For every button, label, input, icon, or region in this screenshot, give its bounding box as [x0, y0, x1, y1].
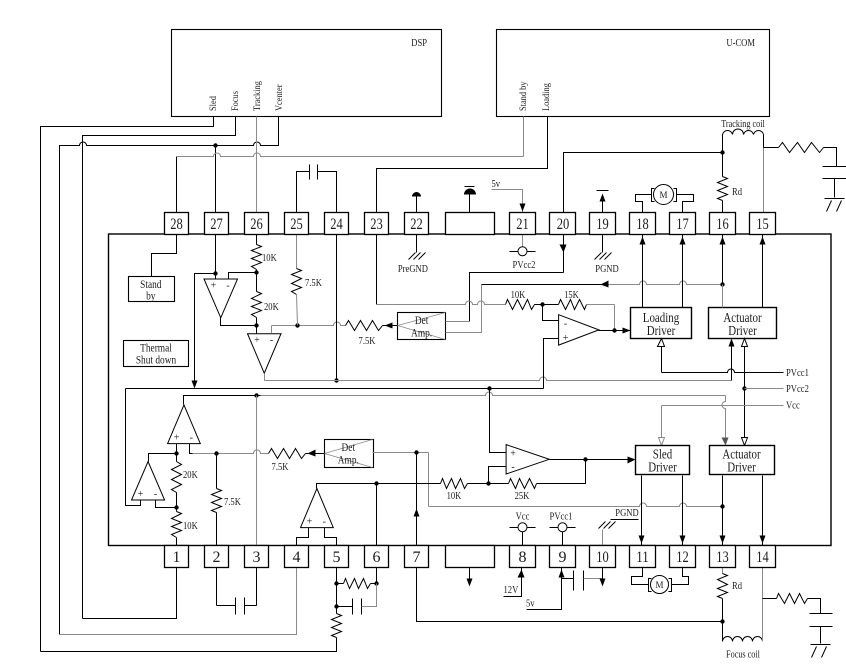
wire 10K to junction	[468, 483, 489, 485]
svg-text:7.5K: 7.5K	[272, 461, 289, 473]
svg-text:Vcc: Vcc	[516, 511, 530, 523]
svg-text:Shut down: Shut down	[136, 353, 176, 367]
svg-text:7.5K: 7.5K	[359, 335, 376, 347]
arrow into bus from U1 node	[192, 381, 198, 389]
block Actuator Driver lower	[710, 446, 775, 475]
wire U4 plus stub left down to bus	[544, 339, 559, 389]
node U5 plus	[174, 451, 178, 455]
svg-text:20: 20	[557, 216, 570, 233]
op-amp U1	[204, 279, 238, 318]
svg-text:Focus: Focus	[230, 91, 240, 111]
wire U5 minus stub down	[190, 444, 193, 454]
arrow solid into Actuator Driver bottom	[729, 339, 735, 347]
wire Vcenter: DSP down, left rail with hops at Tracking and Focus rails	[60, 117, 279, 635]
svg-text:3: 3	[253, 549, 261, 566]
wire motor left lead to pin18	[636, 195, 652, 213]
wire pin16 into IC to Actuator Driver	[722, 235, 724, 285]
wire arrow to Det Amp U8	[306, 453, 325, 455]
supply PVcc1 pin9	[550, 527, 559, 529]
wire actuator lower feed down (hop over Vcc)	[722, 396, 726, 438]
svg-text:Driver: Driver	[727, 461, 756, 476]
svg-text:7.5K: 7.5K	[224, 496, 241, 508]
svg-text:1: 1	[173, 549, 181, 566]
wire op3 output line y395.5 (hop at 489)	[184, 396, 261, 405]
node U4 output	[612, 328, 616, 332]
svg-text:5v: 5v	[492, 178, 501, 190]
svg-text:7: 7	[413, 549, 421, 566]
pin 28	[165, 213, 189, 235]
pin 21	[510, 213, 536, 235]
svg-text:24: 24	[330, 216, 343, 233]
wire U7 output to Sled Driver	[550, 459, 634, 461]
node 20K/10K junction	[174, 505, 178, 509]
resistor 7.5K vert pin2	[216, 454, 218, 489]
bottom wide box	[446, 546, 495, 568]
pin 5	[325, 546, 349, 568]
capacitor pins2-3	[217, 605, 236, 607]
svg-text:-: -	[190, 433, 193, 444]
pin 10	[590, 546, 616, 568]
block Stand by	[129, 277, 175, 302]
resistor 10K mid	[441, 479, 468, 489]
svg-text:PVcc1: PVcc1	[786, 367, 809, 379]
pin 19	[590, 213, 616, 235]
arrow open into Sled Driver top	[659, 438, 665, 446]
DSP block	[172, 30, 442, 117]
svg-text:+: +	[211, 281, 217, 292]
wire sense line from pin16 node to Det Amp U3 (hops 18,17)	[482, 284, 603, 286]
svg-text:+: +	[563, 333, 569, 344]
svg-text:Driver: Driver	[647, 324, 676, 339]
wire Sled out pin11	[641, 476, 643, 546]
svg-text:20K: 20K	[183, 469, 198, 481]
wire pin23 down right (hops at 469,481)	[376, 235, 378, 305]
inductor tracking coil	[723, 129, 764, 135]
block Loading Driver	[631, 308, 692, 339]
svg-text:Tracking: Tracking	[252, 81, 262, 111]
svg-text:PreGND: PreGND	[398, 263, 428, 275]
arrow into 7.5K from Det Amp U3	[385, 323, 393, 329]
resistor Rd top	[722, 153, 724, 177]
wire 25K feedback to output	[537, 460, 586, 484]
inductor focus coil	[723, 637, 763, 642]
op-amp U2	[248, 334, 282, 374]
svg-text:12: 12	[676, 549, 689, 566]
wire pin28 to Stand by box	[152, 235, 177, 277]
svg-text:Rd: Rd	[732, 580, 742, 592]
node PVcc2	[742, 386, 746, 390]
capacitor top right	[823, 166, 846, 168]
wire pin14 to coil right	[762, 599, 764, 642]
node U1 plus input	[213, 271, 217, 275]
resistor 15K loading	[559, 300, 587, 310]
svg-text:+: +	[307, 517, 313, 528]
wire motor right lead to pin12	[672, 568, 689, 585]
wire 10K to 20K	[256, 270, 258, 292]
op-amp U9	[301, 489, 334, 528]
svg-text:10K: 10K	[511, 289, 526, 301]
svg-text:by: by	[146, 289, 155, 303]
wire Det Amp U3 upper input from pin20	[446, 321, 470, 323]
wire pin24 down to U2 output line	[336, 235, 338, 381]
wire 20K bottom to node	[256, 318, 258, 326]
svg-text:25K: 25K	[515, 490, 530, 502]
svg-text:DSP: DSP	[411, 37, 427, 49]
wire pin20 up right to tracking coil node	[564, 153, 723, 213]
svg-text:13: 13	[716, 549, 729, 566]
pin 6	[365, 546, 389, 568]
svg-text:19: 19	[596, 216, 609, 233]
wire 7.5K to Det Amp U3 with arrow	[383, 325, 398, 327]
svg-text:PVcc2: PVcc2	[786, 383, 809, 395]
wire pin3 gray vertical (hop drawn on det line)	[256, 396, 258, 546]
wire motor right lead to pin17	[677, 195, 694, 213]
svg-text:9: 9	[559, 549, 567, 566]
resistor 10K lower	[172, 512, 182, 538]
svg-text:-: -	[511, 462, 514, 473]
svg-text:10K: 10K	[262, 252, 277, 264]
block Det Amp U3	[398, 313, 446, 340]
wire U4 output to Loading Driver	[599, 330, 631, 332]
svg-text:12V: 12V	[504, 584, 519, 596]
node pin3 tap on op3 output	[254, 393, 258, 397]
wire pin17 to Loading Driver	[682, 235, 684, 308]
rail PVcc2 label wire	[745, 388, 784, 390]
pin 22	[405, 213, 429, 235]
svg-text:10K: 10K	[183, 520, 198, 532]
wire Det Amp U3 lower input right up	[446, 285, 482, 333]
supply Vcc pin8	[510, 527, 519, 529]
wire pin4 to Vcenter rail	[60, 568, 297, 635]
node pin24 on U2 output line	[334, 378, 338, 382]
node tracking coil / pin20 / Rd	[720, 150, 724, 154]
block Det Amp U8	[325, 440, 374, 468]
wire Tracking: DSP down to pin26	[256, 117, 258, 213]
wire coil left down to node	[722, 135, 724, 153]
ground PGND hatch pin10	[599, 522, 606, 529]
arrow below bottom wide box	[469, 568, 471, 579]
svg-text:U-COM: U-COM	[726, 37, 755, 49]
wire pin14 down	[762, 568, 764, 599]
capacitor C-bridge pins25-24	[297, 172, 310, 213]
wire U7 plus from bus	[490, 389, 507, 453]
svg-text:17: 17	[676, 216, 689, 233]
wire U6 output up to U5 plus node	[149, 454, 177, 462]
node U1 output / U2 plus	[254, 323, 258, 327]
wire Sled: DSP down, left, down left rail	[41, 117, 214, 652]
resistor 7.5K pin25	[292, 269, 302, 295]
arrow open into Actuator lower top	[742, 438, 748, 446]
capacitor pins5-6	[337, 606, 353, 608]
node pin6 res	[374, 581, 378, 585]
pin 23	[365, 213, 389, 235]
node pin5 res	[334, 581, 338, 585]
pin 14	[750, 546, 776, 568]
svg-text:20K: 20K	[264, 301, 279, 313]
ground PreGND hatch	[409, 253, 416, 260]
pin 13	[710, 546, 736, 568]
svg-text:18: 18	[636, 216, 649, 233]
ground earth top right	[825, 198, 845, 200]
supply PVcc2 pin21	[522, 235, 524, 248]
wire 5v to pin9	[527, 568, 562, 610]
svg-text:+: +	[138, 489, 144, 500]
wire to 10K mid	[377, 483, 441, 485]
U-COM block	[497, 30, 770, 117]
resistor 20K pin26	[252, 292, 262, 318]
wire Focus: DSP down, left, down left rail	[83, 117, 236, 619]
motor M loading	[654, 185, 674, 205]
svg-text:-: -	[564, 319, 567, 330]
wire Loading: U-COM down, left, down to pin23	[377, 117, 548, 213]
wire Rd down to node	[722, 599, 724, 621]
svg-text:26: 26	[250, 216, 263, 233]
motor M spindle	[651, 576, 669, 594]
resistor damping top right	[779, 143, 824, 153]
wire 10K to 15K	[535, 304, 559, 306]
svg-text:11: 11	[636, 549, 649, 566]
wire res leads pins5-6	[337, 583, 344, 585]
wire node down to op-amp U2 +	[256, 326, 258, 334]
wire pin5 down	[336, 568, 338, 584]
svg-text:Amp.: Amp.	[338, 453, 359, 467]
resistor pin5 vertical	[332, 614, 342, 638]
pin 4	[285, 546, 309, 568]
svg-text:10K: 10K	[447, 490, 462, 502]
node U7 output	[583, 457, 587, 461]
wire U6 minus to 20K/10K node	[156, 501, 177, 508]
wire Det Amp U8 right side	[373, 452, 429, 454]
wire junction to 25K	[489, 483, 509, 485]
IC main body	[109, 234, 832, 546]
node pin7/pin13 junction	[720, 619, 724, 623]
svg-text:M: M	[659, 190, 667, 200]
node pin5 cap	[334, 604, 338, 608]
svg-text:Amp.: Amp.	[411, 326, 432, 340]
svg-text:Rd: Rd	[732, 186, 742, 198]
wire Actuator out pin14	[762, 476, 764, 546]
node 10K/25K U7 minus	[486, 481, 490, 485]
svg-text:15: 15	[756, 216, 769, 233]
wire pin5 chain down	[336, 584, 338, 614]
antenna symbol above pin19	[602, 197, 604, 213]
wire det line to U5 minus: gray with dot and hop	[193, 450, 269, 453]
wire resistor to cap top right	[824, 148, 837, 167]
wire pin27 down to op-amp U1 +	[215, 235, 217, 280]
resistor 7.5K horizontal lower	[269, 449, 306, 459]
pin 12	[670, 546, 696, 568]
rail PVcc1	[661, 339, 663, 373]
wire pin20 down arrow left down to Det Amp U3	[563, 235, 565, 273]
wire pin25 down	[296, 235, 298, 269]
top wide box	[446, 213, 495, 235]
capacitor bottom right	[810, 613, 833, 615]
svg-text:8: 8	[519, 549, 527, 566]
wire pin18 to Loading Driver	[642, 235, 644, 308]
svg-text:5: 5	[333, 549, 341, 566]
wire U9 output up right	[317, 484, 377, 489]
node pin7 tap	[414, 450, 418, 454]
pin 1	[165, 546, 189, 568]
wire motor left lead to pin11	[632, 568, 649, 585]
test point above top wide box	[469, 195, 471, 213]
op-amp U4 loading	[559, 315, 599, 345]
arrow into Loading Driver	[623, 328, 631, 334]
block Actuator Driver upper	[709, 308, 777, 339]
svg-text:Focus coil: Focus coil	[726, 650, 760, 661]
pin 26	[245, 213, 269, 235]
wire pin22 to PreGND	[416, 235, 418, 253]
node sense on pin16 line	[720, 282, 724, 286]
svg-text:16: 16	[716, 216, 729, 233]
block Thermal Shut down	[124, 341, 189, 367]
wire resistor to cap bottom right	[808, 599, 821, 614]
svg-text:-: -	[270, 335, 273, 346]
svg-text:21: 21	[516, 216, 529, 233]
wire coil right down to pin15	[763, 135, 765, 148]
node sense on pin13 line	[720, 504, 724, 508]
wire pin15 to Actuator Driver	[762, 235, 764, 308]
resistor 10K pin26	[252, 245, 262, 270]
arrow open into Loading Driver bottom	[658, 339, 665, 347]
wire pin14 node to damping resistor	[763, 598, 777, 600]
wire U2 minus up to gray line	[271, 326, 273, 334]
svg-text:Sled: Sled	[208, 96, 218, 111]
pin 9	[550, 546, 576, 568]
wire pin1 U-route to Focus rail	[83, 568, 177, 619]
ground PGND hatch pin19	[595, 253, 602, 260]
svg-text:Driver: Driver	[648, 461, 677, 476]
pin 24	[325, 213, 349, 235]
pin 25	[285, 213, 309, 235]
resistor damping bottom right	[777, 594, 808, 604]
wire divider node down to U4 minus	[543, 305, 559, 321]
svg-text:7.5K: 7.5K	[305, 277, 322, 289]
wire pin6 down	[376, 568, 378, 584]
wire pin2 down	[216, 568, 218, 606]
arrow into Actuator lower top	[722, 438, 729, 446]
wire U9 plus jog to pin4	[297, 528, 309, 546]
svg-text:22: 22	[410, 216, 423, 233]
resistor 10K loading	[506, 300, 535, 310]
wire 12V to pin8	[504, 568, 522, 597]
capacitor pins9-10	[562, 578, 574, 580]
wire U1 output to node	[221, 318, 257, 326]
wire pin13 down to Rd	[722, 568, 724, 574]
svg-text:15K: 15K	[564, 289, 579, 301]
svg-text:Vcc: Vcc	[786, 400, 800, 412]
pin 17	[670, 213, 696, 235]
wire U2 minus line right to 7.5K (hop at pin24)	[272, 322, 346, 325]
svg-text:+: +	[254, 335, 260, 346]
svg-text:10: 10	[596, 549, 609, 566]
wire pin7 down right to pin13 node	[417, 568, 723, 622]
wire node down to focus coil	[722, 622, 724, 642]
svg-text:PGND: PGND	[595, 263, 618, 275]
svg-text:PVcc1: PVcc1	[550, 511, 573, 523]
wire pin10 stub with down arrow	[602, 568, 604, 581]
wire U9 minus jog to pin5	[325, 528, 337, 546]
node bus to U7 plus	[487, 386, 491, 390]
op-amp U6	[132, 462, 165, 501]
pin 3	[245, 546, 269, 568]
svg-text:Vcenter: Vcenter	[274, 85, 284, 112]
op-amp U7	[506, 445, 549, 474]
wire cap to ground top right	[834, 179, 836, 198]
wire U5 plus stub	[176, 444, 178, 454]
arrow into Sled Driver	[628, 457, 636, 464]
op-amp U5	[168, 405, 201, 444]
node Vcenter to pin27 junction	[213, 143, 217, 147]
svg-text:2: 2	[213, 549, 221, 566]
svg-text:4: 4	[293, 549, 301, 566]
pin 18	[630, 213, 656, 235]
node loading divider	[540, 302, 544, 306]
node pin6 tap	[374, 481, 378, 485]
pin 16	[710, 213, 736, 235]
svg-text:-: -	[154, 489, 157, 500]
wire pin27 up to Vcenter line	[215, 146, 217, 213]
arrow 5v down into pin21	[520, 204, 526, 212]
svg-text:PGND: PGND	[615, 507, 638, 519]
wire pin19 to PGND	[602, 235, 604, 253]
wire pin7 vertical with up arrow	[416, 453, 418, 546]
wire U1 plus node left and down to bus with arrow	[195, 274, 216, 386]
pin 8	[510, 546, 536, 568]
wire Stand-by: pin28 up, right to U-COM (hops over 27,26)	[176, 157, 178, 213]
block Sled Driver	[636, 446, 690, 475]
wire cap to ground bottom right	[820, 627, 822, 644]
svg-text:-: -	[226, 281, 229, 292]
rail PVcc2 vertical	[744, 339, 746, 438]
wire Sled out pin12	[682, 476, 684, 546]
wire U1 minus up right to R node	[229, 273, 257, 280]
wire 7.5K pin25 to node	[297, 295, 298, 326]
ground earth bottom right	[811, 644, 831, 646]
svg-text:14: 14	[756, 549, 769, 566]
pin 2	[205, 546, 229, 568]
svg-text:M: M	[655, 580, 663, 590]
node 7.5K tap pin2	[214, 451, 218, 455]
svg-text:Loading: Loading	[541, 83, 551, 111]
arrow into 7.5K lower from Det Amp	[308, 450, 316, 457]
svg-text:Tracking coil: Tracking coil	[721, 119, 765, 130]
pin 7	[405, 546, 429, 568]
svg-text:-: -	[323, 517, 326, 528]
svg-text:28: 28	[170, 216, 183, 233]
resistor 7.5K horizontal upper	[346, 321, 383, 331]
wire to damping resistor top right	[764, 147, 779, 149]
op-amp U2 output down to gray line	[264, 374, 266, 381]
wire 15K right to feedback corner	[587, 304, 615, 306]
wire U7 minus stub	[489, 467, 507, 484]
pin 11	[630, 546, 656, 568]
wire 5v to pin21	[492, 190, 523, 213]
wire feedback down to output node	[614, 305, 616, 331]
svg-text:+: +	[510, 449, 516, 460]
bus error line y388	[126, 389, 141, 506]
svg-text:Driver: Driver	[728, 324, 757, 339]
node U1 minus junction	[254, 270, 258, 274]
test point above pin22	[416, 197, 418, 213]
resistor 25K	[509, 479, 537, 489]
svg-text:6: 6	[373, 549, 381, 566]
svg-text:+: +	[174, 433, 180, 444]
rail Vcc	[661, 406, 663, 439]
svg-text:25: 25	[290, 216, 303, 233]
wire up into Actuator Driver bottom	[731, 342, 733, 381]
wire pin26 down to 10K	[256, 235, 258, 245]
